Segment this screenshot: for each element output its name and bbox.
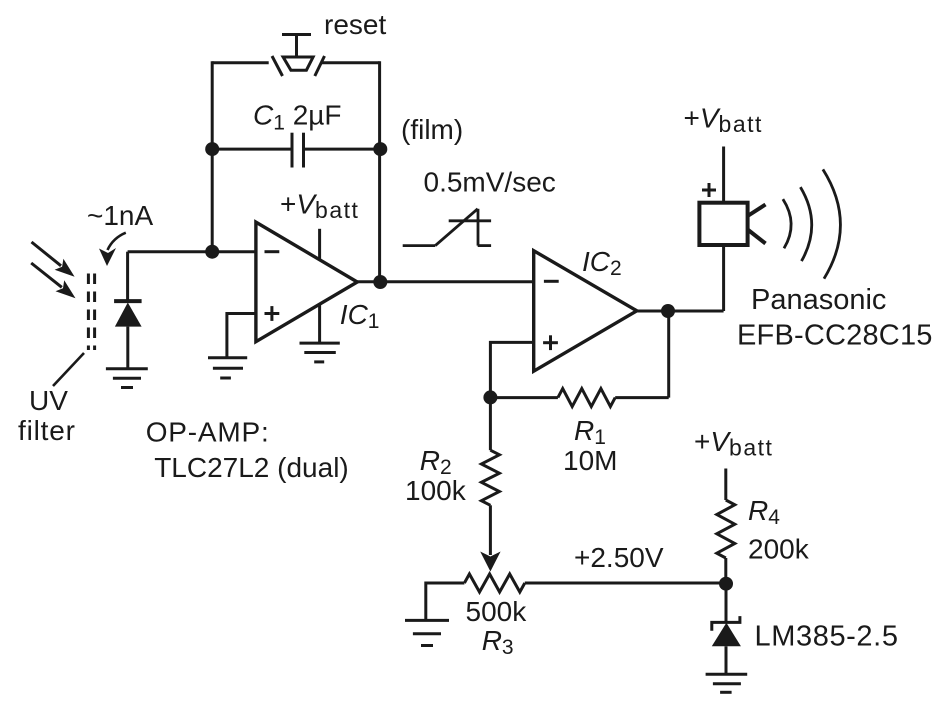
op-amp IC2 (534, 251, 637, 372)
node feedback junction (483, 390, 497, 404)
wire IC2 output to buzzer (637, 310, 724, 313)
svg-text:200k: 200k (748, 534, 810, 565)
resistor R4 (717, 469, 735, 584)
wire reset loop right horizontal (321, 61, 380, 64)
sound wave arcs (783, 169, 841, 278)
resistor R2 (481, 397, 499, 505)
wire right vertical (reset to IC1 output node) (378, 61, 381, 282)
resistor R1 (490, 389, 668, 407)
wire buzzer top lead to +Vbatt (722, 147, 725, 203)
wire reset loop left horizontal (212, 61, 269, 64)
reset switch pushbutton (272, 35, 325, 77)
node C1 right (373, 142, 387, 156)
ground IC1 noninverting (208, 358, 247, 378)
svg-text:500k: 500k (466, 596, 528, 627)
svg-text:~1nA: ~1nA (87, 200, 153, 231)
~1nA curved arrow (99, 233, 126, 266)
light ray arrow 1 (32, 242, 75, 277)
svg-text:(film): (film) (401, 114, 463, 145)
svg-text:filter: filter (18, 415, 76, 446)
node IC1 output (373, 275, 387, 289)
wire IC1 noninverting input (227, 314, 256, 358)
svg-text:Panasonic: Panasonic (751, 284, 886, 316)
svg-text:TLC27L2 (dual): TLC27L2 (dual) (154, 452, 349, 483)
svg-text:10M: 10M (563, 445, 617, 476)
wiper arrow into R3 (480, 505, 500, 571)
svg-text:EFB-CC28C15: EFB-CC28C15 (737, 319, 933, 351)
capacitor C1 (212, 133, 381, 168)
wire buzzer bottom lead (722, 245, 725, 311)
buzzer BZ1 (Panasonic) (699, 183, 765, 245)
node +2.50V reference (719, 577, 733, 591)
svg-text:LM385-2.5: LM385-2.5 (755, 621, 899, 653)
wire IC1 output to IC2 inverting input (357, 280, 533, 283)
wire R1 right vertical to output node (667, 311, 670, 398)
svg-text:+2.50V: +2.50V (574, 542, 664, 573)
ground photodiode (106, 369, 148, 388)
wire +2.50V rail (R3 wiper to reference node) (525, 582, 726, 585)
light ray arrow 2 (31, 263, 75, 298)
svg-text:UV: UV (29, 385, 68, 416)
wire R3 left to ground (424, 582, 427, 621)
wire left vertical (reset to inverting node) (211, 61, 214, 251)
node IC2 output (661, 304, 675, 318)
photodiode D1 (114, 252, 142, 369)
svg-text:0.5mV/sec: 0.5mV/sec (424, 167, 556, 198)
op-amp IC1 (256, 222, 357, 343)
ground LM385 (706, 674, 748, 692)
UV filter pointer line (53, 353, 84, 386)
UV filter dashed plates (88, 274, 94, 351)
svg-text:C1 2µF: C1 2µF (253, 100, 342, 135)
ground R3 (405, 620, 449, 645)
wire IC2 noninverting input (490, 342, 533, 397)
potentiometer R3 (426, 574, 525, 592)
zener diode LM385-2.5 (712, 584, 741, 675)
svg-text:100k: 100k (405, 475, 467, 506)
node IC1 inverting input (205, 245, 219, 259)
svg-text:reset: reset (324, 9, 386, 40)
svg-text:OP-AMP:: OP-AMP: (146, 416, 270, 447)
ramp waveform symbol (403, 209, 491, 246)
wire inverting input horizontal (128, 250, 256, 253)
ground IC1 power pin (300, 343, 340, 362)
node C1 left (205, 142, 219, 156)
